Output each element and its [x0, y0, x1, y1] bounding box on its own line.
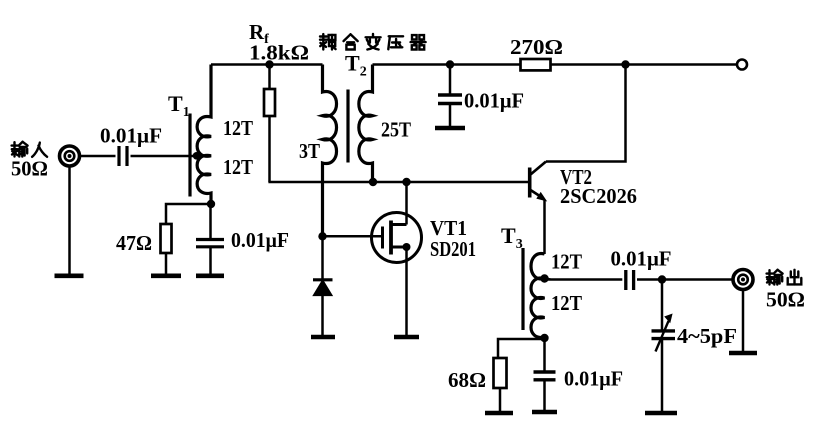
- svg-text:50Ω: 50Ω: [766, 288, 805, 312]
- capacitor C1 0.01uF input: [119, 146, 127, 166]
- node output junction: [658, 275, 666, 283]
- svg-text:68Ω: 68Ω: [448, 368, 486, 392]
- ground VT1 source: [394, 335, 419, 340]
- wire tap stub: [197, 155, 212, 158]
- svg-text:0.01μF: 0.01μF: [464, 89, 524, 113]
- svg-text:T1: T1: [168, 91, 190, 120]
- wire rail B: 25T top to output terminal: [373, 63, 737, 66]
- resistor R2 270R: [521, 59, 551, 70]
- output connector J2 输出: [733, 270, 753, 290]
- wire input down to ground: [68, 166, 71, 274]
- wire input connector to C1: [80, 155, 116, 158]
- wire VT1 drain to bus: [405, 182, 408, 225]
- svg-text:SD201: SD201: [430, 237, 476, 261]
- wire T3 tap to C4: [545, 278, 623, 281]
- wire VT2 collector: [546, 65, 626, 162]
- ground 47R: [151, 273, 181, 278]
- wire C2 to ground: [209, 247, 212, 274]
- wire VT2 emitter down to T3: [543, 200, 546, 255]
- transistor VT2: [530, 162, 548, 202]
- node tap T1: [193, 152, 201, 160]
- diode D1: [313, 236, 333, 335]
- wire T1 bottom to 47R branch: [166, 204, 211, 224]
- wire T3 bottom down to C5: [543, 338, 546, 371]
- node C3 top: [446, 60, 454, 68]
- ground C3: [435, 126, 465, 131]
- svg-text:270Ω: 270Ω: [510, 35, 563, 59]
- svg-text:12T: 12T: [223, 116, 253, 140]
- output terminal top (open circle): [737, 60, 747, 70]
- wire output connector to ground: [742, 290, 745, 351]
- svg-text:50Ω: 50Ω: [11, 157, 48, 181]
- transformer T3 winding (12T+12T): [531, 254, 545, 338]
- wire Rf bottom to bus: [268, 116, 271, 182]
- ground C5: [532, 410, 557, 415]
- node T3 tap: [540, 274, 548, 282]
- svg-text:3T: 3T: [299, 139, 320, 163]
- node Rf top: [265, 60, 273, 68]
- transformer T1 winding (12T+12T): [197, 65, 211, 205]
- wire VT1 source to ground: [405, 247, 408, 335]
- mosfet VT1 SD201: [372, 213, 422, 263]
- label 耦合变压器 coupling transformer: [320, 34, 426, 50]
- svg-text:2SC2026: 2SC2026: [560, 184, 637, 208]
- wire 68R to ground: [499, 388, 502, 411]
- svg-text:4~5pF: 4~5pF: [677, 324, 737, 348]
- svg-text:0.01μF: 0.01μF: [611, 247, 672, 271]
- junction dot T1 bottom: [207, 200, 215, 208]
- svg-text:T3: T3: [501, 223, 523, 252]
- capacitor C5 0.01uF: [534, 372, 556, 380]
- svg-text:0.01μF: 0.01μF: [564, 367, 623, 391]
- wire C5 to ground: [543, 380, 546, 410]
- svg-text:0.01μF: 0.01μF: [231, 228, 289, 252]
- ground CV: [645, 411, 677, 416]
- wire 47R to ground: [165, 253, 168, 274]
- transformer T1 core: [188, 114, 191, 197]
- transformer T3 core: [521, 248, 524, 330]
- svg-text:12T: 12T: [223, 155, 253, 179]
- transformer T2 primary 3T: [323, 65, 337, 237]
- label 输入 (input): [12, 142, 48, 157]
- svg-text:1.8kΩ: 1.8kΩ: [249, 41, 309, 65]
- wire T1 bottom down to C2: [209, 204, 212, 238]
- input connector J1 输入: [60, 146, 80, 166]
- svg-text:12T: 12T: [551, 291, 582, 315]
- label 输出 (output): [767, 270, 802, 285]
- wire C1 to T1 tap: [131, 155, 197, 158]
- variable capacitor CV 4~5pF: [652, 314, 676, 352]
- ground output: [729, 351, 757, 356]
- resistor R1 47R: [161, 224, 172, 253]
- ground input: [55, 273, 84, 278]
- capacitor C4 0.01uF coupling: [626, 270, 634, 290]
- node VT2 collector top: [621, 60, 629, 68]
- wire rail A: T1 top to 3T top: [211, 63, 323, 66]
- svg-text:0.01μF: 0.01μF: [100, 124, 162, 148]
- node T3 bottom junction: [540, 334, 548, 342]
- svg-text:T2: T2: [345, 51, 367, 80]
- transformer T2 core: [346, 90, 349, 163]
- capacitor C3 0.01uF: [449, 65, 452, 94]
- transformer T2 secondary 25T: [359, 65, 373, 183]
- wire Rf node down: [268, 65, 271, 90]
- ground 68R: [485, 411, 513, 416]
- svg-text:47Ω: 47Ω: [116, 231, 152, 255]
- ground C2: [196, 273, 224, 278]
- svg-text:12T: 12T: [551, 250, 582, 274]
- resistor Rf 1.8k: [264, 89, 275, 116]
- wire C4 to output node: [637, 278, 732, 281]
- ground D1: [311, 335, 335, 340]
- svg-text:25T: 25T: [381, 118, 411, 142]
- resistor R3 68R: [494, 358, 507, 388]
- node VT1 gate junction: [318, 232, 326, 240]
- wire CV to ground: [661, 339, 664, 411]
- node VT1 drain on bus: [402, 178, 410, 186]
- wire bus (base net): [268, 181, 528, 184]
- wire output node down to CV: [661, 280, 664, 330]
- wire gate junction to VT1 gate: [323, 235, 382, 238]
- capacitor C2 0.01uF bypass: [196, 240, 224, 247]
- node 25T bottom on bus: [369, 178, 377, 186]
- wire T3 bottom to 68R: [498, 339, 545, 357]
